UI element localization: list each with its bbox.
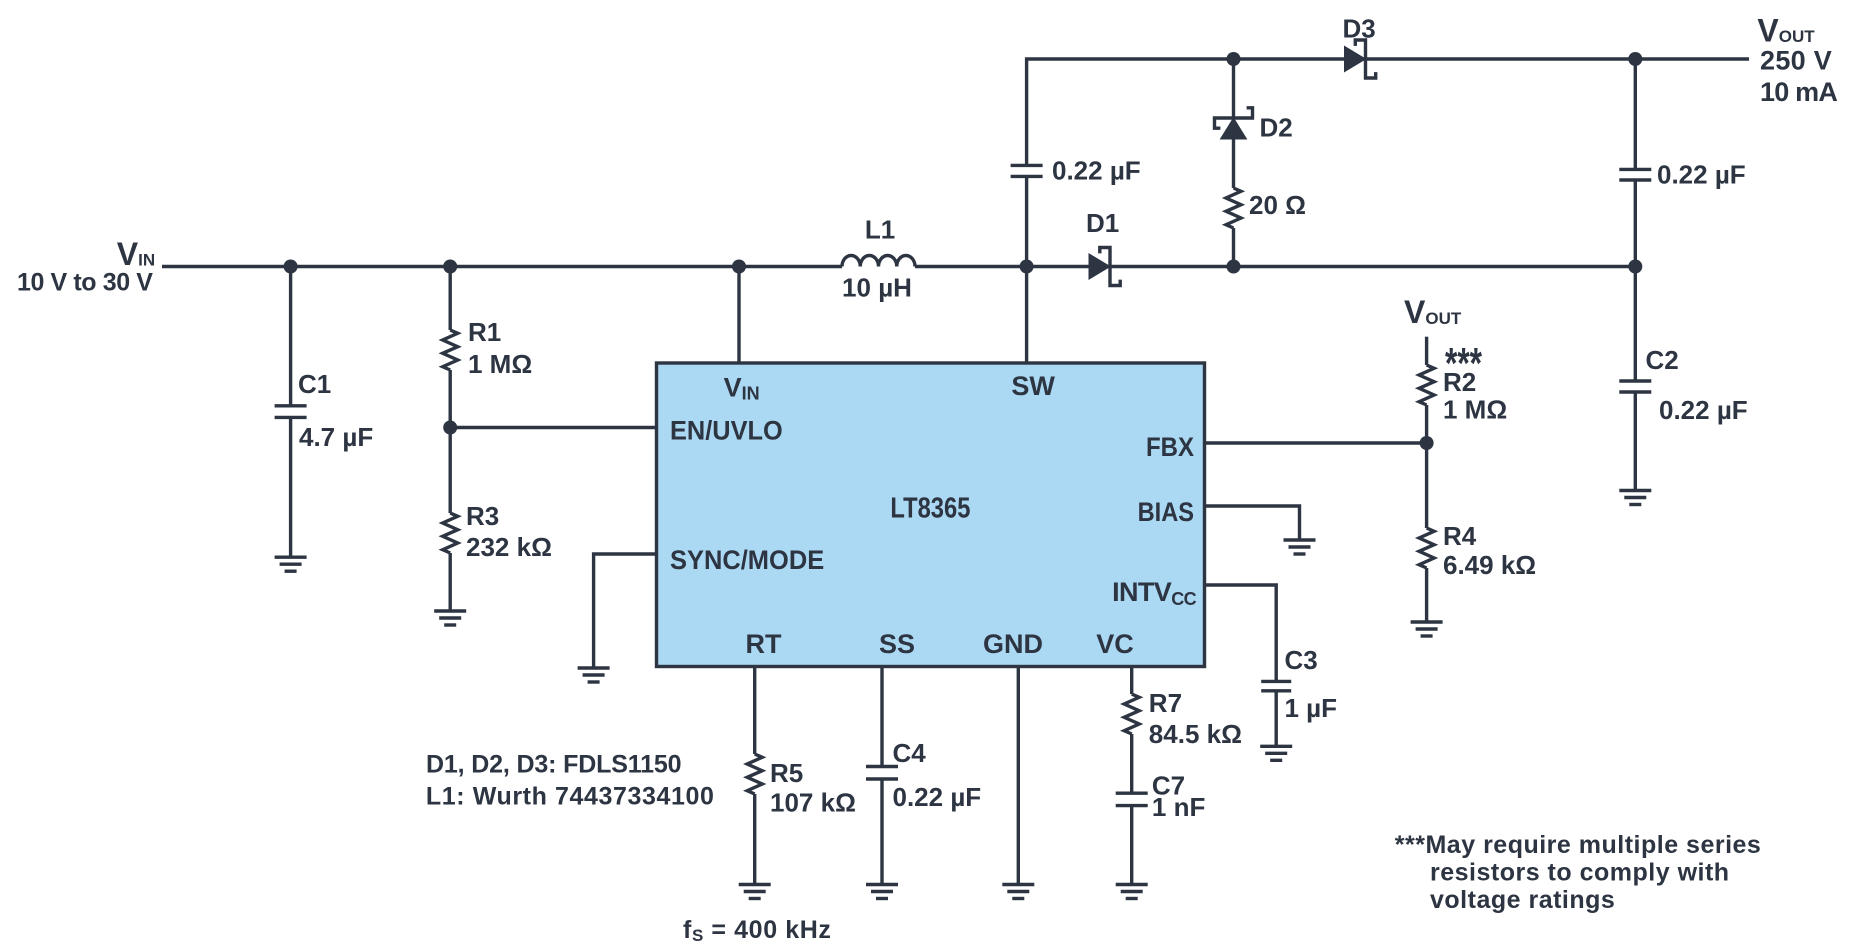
svg-text:0.22 µF: 0.22 µF xyxy=(1052,156,1141,186)
svg-text:SS: SS xyxy=(879,629,915,659)
svg-text:***May require multiple series: ***May require multiple series xyxy=(1395,831,1762,859)
svg-text:resistors to comply with: resistors to comply with xyxy=(1430,859,1730,887)
svg-text:EN/UVLO: EN/UVLO xyxy=(670,416,783,446)
svg-text:C3: C3 xyxy=(1285,645,1318,675)
svg-text:D1, D2, D3: FDLS1150: D1, D2, D3: FDLS1150 xyxy=(426,751,681,779)
svg-text:1 MΩ: 1 MΩ xyxy=(468,349,532,379)
svg-text:VOUT: VOUT xyxy=(1404,294,1462,330)
svg-text:10 V to 30 V: 10 V to 30 V xyxy=(17,269,153,297)
svg-text:107 kΩ: 107 kΩ xyxy=(770,788,856,818)
svg-text:fS = 400 kHz: fS = 400 kHz xyxy=(683,916,832,945)
svg-text:L1: Wurth 74437334100: L1: Wurth 74437334100 xyxy=(426,783,715,811)
svg-text:10 mA: 10 mA xyxy=(1760,77,1837,107)
svg-text:R3: R3 xyxy=(466,501,499,531)
svg-text:LT8365: LT8365 xyxy=(890,493,970,525)
svg-text:R1: R1 xyxy=(468,317,501,347)
svg-text:1 MΩ: 1 MΩ xyxy=(1443,395,1507,425)
svg-text:VIN: VIN xyxy=(117,236,155,272)
svg-text:C4: C4 xyxy=(893,738,927,768)
svg-text:232 kΩ: 232 kΩ xyxy=(466,532,552,562)
svg-text:SW: SW xyxy=(1011,371,1055,401)
svg-text:VOUT: VOUT xyxy=(1757,12,1815,48)
svg-text:FBX: FBX xyxy=(1146,432,1194,462)
svg-text:VC: VC xyxy=(1096,629,1134,659)
svg-text:BIAS: BIAS xyxy=(1138,497,1194,527)
svg-text:GND: GND xyxy=(983,629,1043,659)
svg-text:84.5 kΩ: 84.5 kΩ xyxy=(1149,719,1242,749)
svg-text:R4: R4 xyxy=(1443,521,1477,551)
svg-text:0.22 µF: 0.22 µF xyxy=(1659,395,1748,425)
svg-text:voltage ratings: voltage ratings xyxy=(1430,886,1615,914)
svg-text:D3: D3 xyxy=(1343,14,1376,44)
svg-text:4.7 µF: 4.7 µF xyxy=(299,422,373,452)
svg-text:R7: R7 xyxy=(1149,688,1182,718)
svg-text:1 µF: 1 µF xyxy=(1285,693,1338,723)
svg-text:D2: D2 xyxy=(1260,113,1293,143)
svg-text:0.22 µF: 0.22 µF xyxy=(893,782,982,812)
svg-text:RT: RT xyxy=(746,629,782,659)
svg-text:10 µH: 10 µH xyxy=(842,273,912,303)
svg-text:C2: C2 xyxy=(1646,345,1679,375)
svg-text:L1: L1 xyxy=(865,215,895,245)
svg-text:20 Ω: 20 Ω xyxy=(1249,190,1306,220)
svg-text:D1: D1 xyxy=(1086,208,1119,238)
svg-text:R5: R5 xyxy=(770,758,803,788)
svg-text:250 V: 250 V xyxy=(1760,46,1832,76)
svg-text:1 nF: 1 nF xyxy=(1152,792,1205,822)
svg-text:6.49 kΩ: 6.49 kΩ xyxy=(1443,550,1536,580)
svg-text:C1: C1 xyxy=(298,369,331,399)
svg-text:R2: R2 xyxy=(1443,367,1476,397)
svg-text:0.22 µF: 0.22 µF xyxy=(1657,160,1746,190)
svg-text:SYNC/MODE: SYNC/MODE xyxy=(670,545,824,575)
